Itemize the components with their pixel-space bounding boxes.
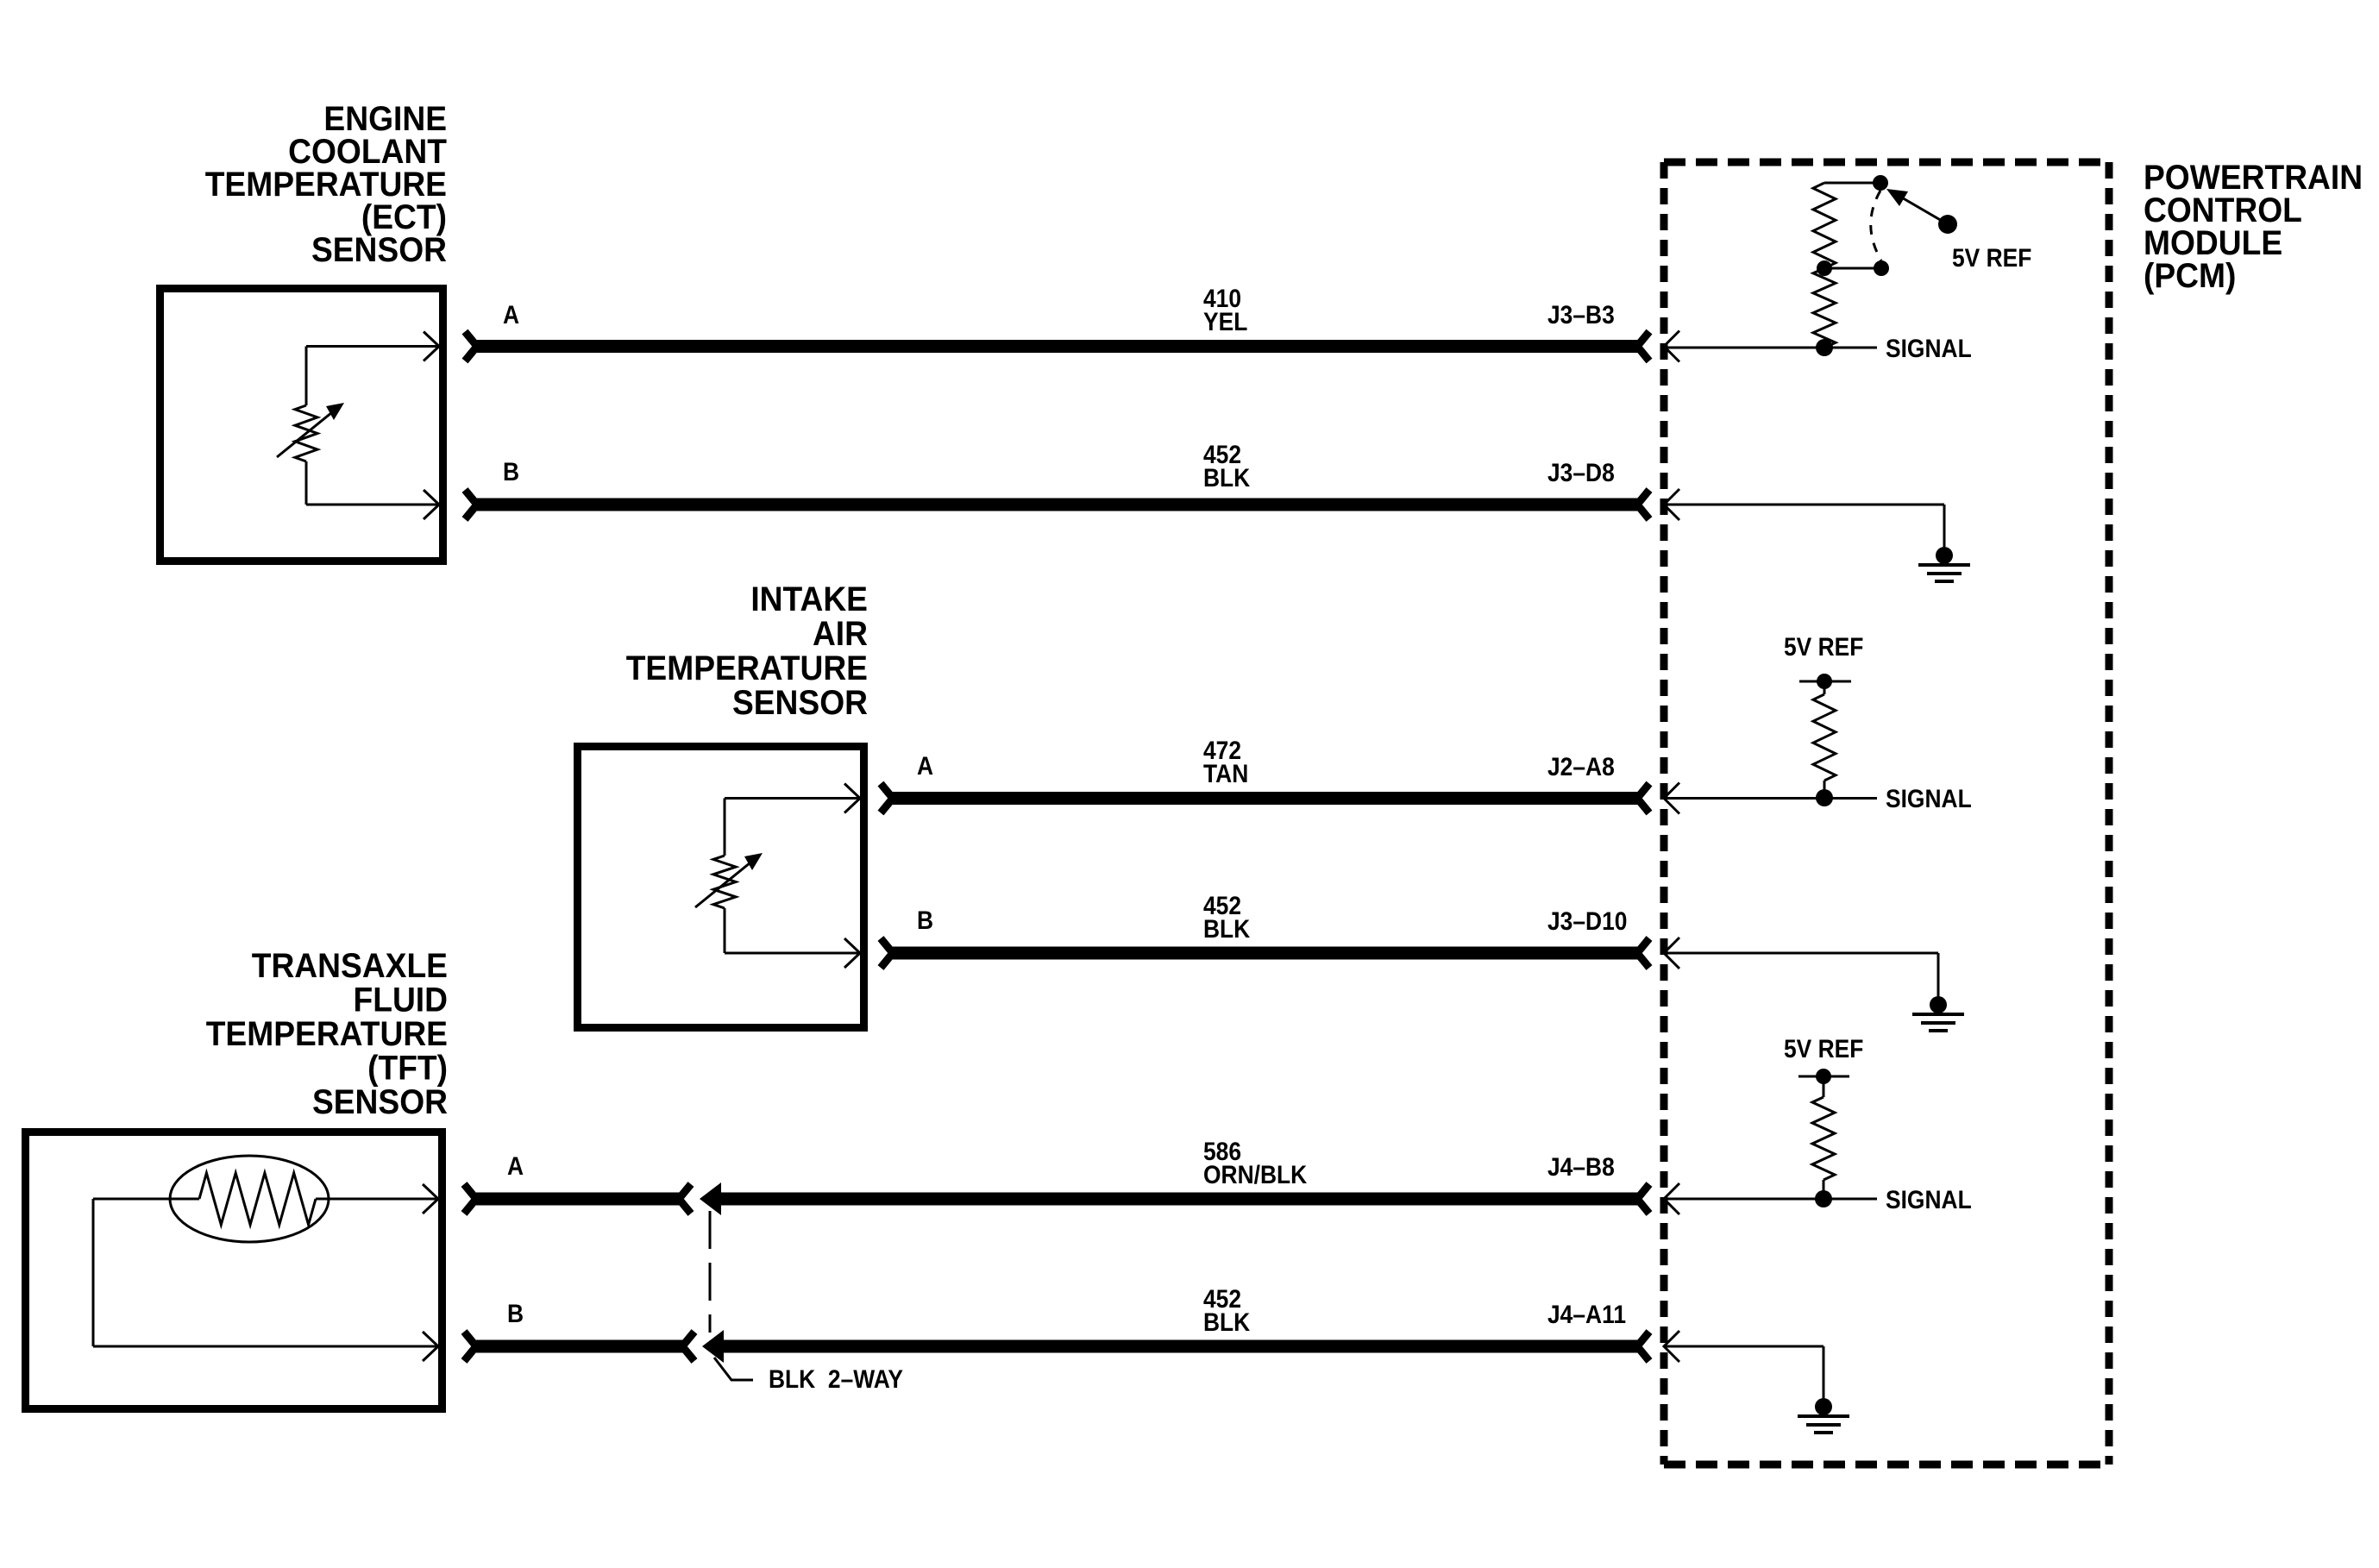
PCM input arrow J4-B8 [1664, 1183, 1679, 1214]
wire 452 BLK segment 2 (to PCM J4-A11) [720, 1340, 1638, 1353]
wire 452 IAT end fishtail [1637, 938, 1649, 968]
svg-text:TEMPERATURE: TEMPERATURE [626, 649, 868, 688]
TFT resistor element (oval with zigzag) [93, 1156, 438, 1346]
IAT sensor box [578, 747, 864, 1028]
svg-text:BLK: BLK [1203, 913, 1251, 943]
svg-text:SIGNAL: SIGNAL [1886, 333, 1972, 362]
svg-text:SENSOR: SENSOR [732, 684, 868, 723]
wire 452 TFT end fishtail [1637, 1332, 1649, 1361]
wire 586 ORN/BLK segment 2 (to PCM J4-B8) [718, 1193, 1638, 1206]
wire 410 end fishtail [1637, 332, 1649, 361]
thermistor IAT (variable resistor) [695, 799, 860, 954]
ECT sensor label [205, 100, 448, 270]
wire 452 BLK (IAT B to PCM J3-D10) [893, 947, 1638, 960]
svg-text:J2–A8: J2–A8 [1547, 751, 1615, 781]
IAT pin A arrow [844, 784, 860, 813]
IAT wire A connector chevron [881, 784, 893, 813]
wire 586 ORN/BLK segment 1 (TFT A) [476, 1193, 680, 1206]
node: divider mid [1817, 260, 1832, 276]
svg-text:A: A [507, 1151, 524, 1180]
svg-text:TRANSAXLE: TRANSAXLE [252, 947, 448, 986]
PCM label [2144, 159, 2363, 296]
inline connector arrowhead wire 452 TFT [702, 1330, 724, 1363]
svg-text:FLUID: FLUID [354, 981, 448, 1019]
svg-text:BLK 2–WAY: BLK 2–WAY [769, 1364, 903, 1393]
TFT pin A arrow [423, 1184, 438, 1214]
ECT wire A connector chevron [465, 332, 477, 361]
svg-text:TEMPERATURE: TEMPERATURE [206, 1015, 448, 1054]
PCM input arrow J2-A8 [1664, 783, 1679, 814]
IAT sensor label [626, 580, 868, 723]
svg-text:J4–B8: J4–B8 [1547, 1151, 1615, 1181]
IAT pin B arrow [844, 938, 860, 968]
svg-text:5V REF: 5V REF [1784, 631, 1863, 661]
ground wire circuit1 [1664, 504, 1944, 506]
svg-text:J3–D10: J3–D10 [1547, 906, 1627, 935]
svg-text:B: B [507, 1298, 524, 1327]
node: 5V REF tap circuit3 [1798, 1069, 1849, 1084]
ECT pin A arrow [424, 332, 439, 361]
ECT pin B arrow [424, 490, 439, 519]
svg-text:A: A [917, 750, 933, 780]
PCM input arrow J4-A11 [1664, 1331, 1679, 1362]
resistor R4 (TFT pull-up) [1812, 1076, 1835, 1199]
PCM input arrow J3-D8 [1664, 489, 1679, 520]
TFT wire B connector chevron [464, 1332, 476, 1361]
svg-text:J3–D8: J3–D8 [1547, 457, 1615, 486]
TFT sensor label [206, 947, 448, 1122]
resistor R2 (PCM pull-up lower) [1813, 268, 1836, 348]
wire 472 TAN (IAT A to PCM J2-A8) [893, 792, 1638, 805]
signal wire circuit2 [1664, 797, 1877, 800]
wire 452 BLK segment 1 (TFT B) [476, 1340, 683, 1353]
PCM dashed box [1664, 162, 2109, 1465]
TFT wire A connector chevron [464, 1184, 476, 1214]
svg-text:SIGNAL: SIGNAL [1886, 1184, 1972, 1214]
wire 586 end fishtail [1637, 1184, 1649, 1214]
inline connector arrowhead wire 586 [700, 1182, 721, 1215]
resistor R3 (IAT pull-up) [1813, 681, 1836, 798]
svg-text:5V REF: 5V REF [1784, 1033, 1863, 1063]
svg-text:J3–B3: J3–B3 [1547, 299, 1615, 329]
node: switch lower throw [1874, 260, 1889, 276]
svg-text:SIGNAL: SIGNAL [1886, 783, 1972, 812]
node: signal junction 2 [1816, 789, 1833, 806]
ground wire circuit3 [1664, 1345, 1823, 1348]
svg-text:B: B [503, 456, 519, 486]
node: 5V REF switch top [1873, 175, 1888, 191]
wire 472 end fishtail [1637, 784, 1649, 813]
signal wire circuit3 [1664, 1198, 1877, 1201]
wire 452 end fishtail [1637, 490, 1649, 519]
PCM input arrow J3-B3 [1664, 331, 1679, 362]
wire top node to resistor [1824, 182, 1880, 185]
ECT wire B connector chevron [465, 490, 477, 519]
wire 586 break fishtail [679, 1184, 691, 1214]
svg-text:5V REF: 5V REF [1952, 242, 2031, 272]
ground wire circuit2 [1664, 952, 1938, 955]
ECT sensor box [160, 289, 443, 561]
svg-text:SENSOR: SENSOR [312, 1083, 448, 1122]
svg-text:BLK: BLK [1203, 1307, 1251, 1336]
IAT wire B connector chevron [881, 938, 893, 968]
svg-text:AIR: AIR [813, 615, 868, 654]
svg-text:(TFT): (TFT) [367, 1049, 448, 1088]
thermistor ECT (variable resistor) [277, 347, 439, 505]
svg-text:YEL: YEL [1203, 306, 1247, 336]
svg-text:INTAKE: INTAKE [750, 580, 868, 619]
svg-text:B: B [917, 905, 933, 934]
svg-text:(PCM): (PCM) [2144, 257, 2236, 296]
svg-text:A: A [503, 299, 519, 329]
svg-text:TAN: TAN [1203, 758, 1248, 787]
inline connector dashed link [709, 1211, 712, 1333]
PCM input arrow J3-D10 [1664, 938, 1679, 969]
wire 452 TFT break fishtail [682, 1332, 694, 1361]
svg-text:BLK: BLK [1203, 462, 1251, 492]
BLK 2-WAY connector leader [714, 1358, 753, 1380]
ground circuit2 [1912, 953, 1964, 1031]
switch lever [1886, 189, 1957, 234]
ground circuit3 [1798, 1346, 1849, 1433]
node: signal junction 1 [1816, 339, 1833, 356]
node: signal junction 3 [1815, 1190, 1832, 1207]
node: 5V REF tap circuit2 [1799, 674, 1851, 689]
svg-text:ORN/BLK: ORN/BLK [1203, 1159, 1308, 1189]
wire 452 BLK (ECT B to PCM J3-D8) [477, 499, 1638, 511]
ground circuit1 [1918, 505, 1970, 581]
switch wiper dashed arc [1871, 191, 1881, 260]
TFT pin B arrow [423, 1332, 438, 1361]
TFT sensor box [26, 1132, 443, 1409]
resistor R1 (PCM pull-up upper) [1813, 183, 1836, 268]
svg-text:SENSOR: SENSOR [311, 231, 447, 270]
signal wire circuit1 [1664, 347, 1877, 349]
wire 410 YEL (ECT A to PCM J3-B3) [477, 340, 1638, 353]
wire mid node to switch throw [1824, 267, 1881, 270]
svg-text:J4–A11: J4–A11 [1547, 1299, 1626, 1328]
